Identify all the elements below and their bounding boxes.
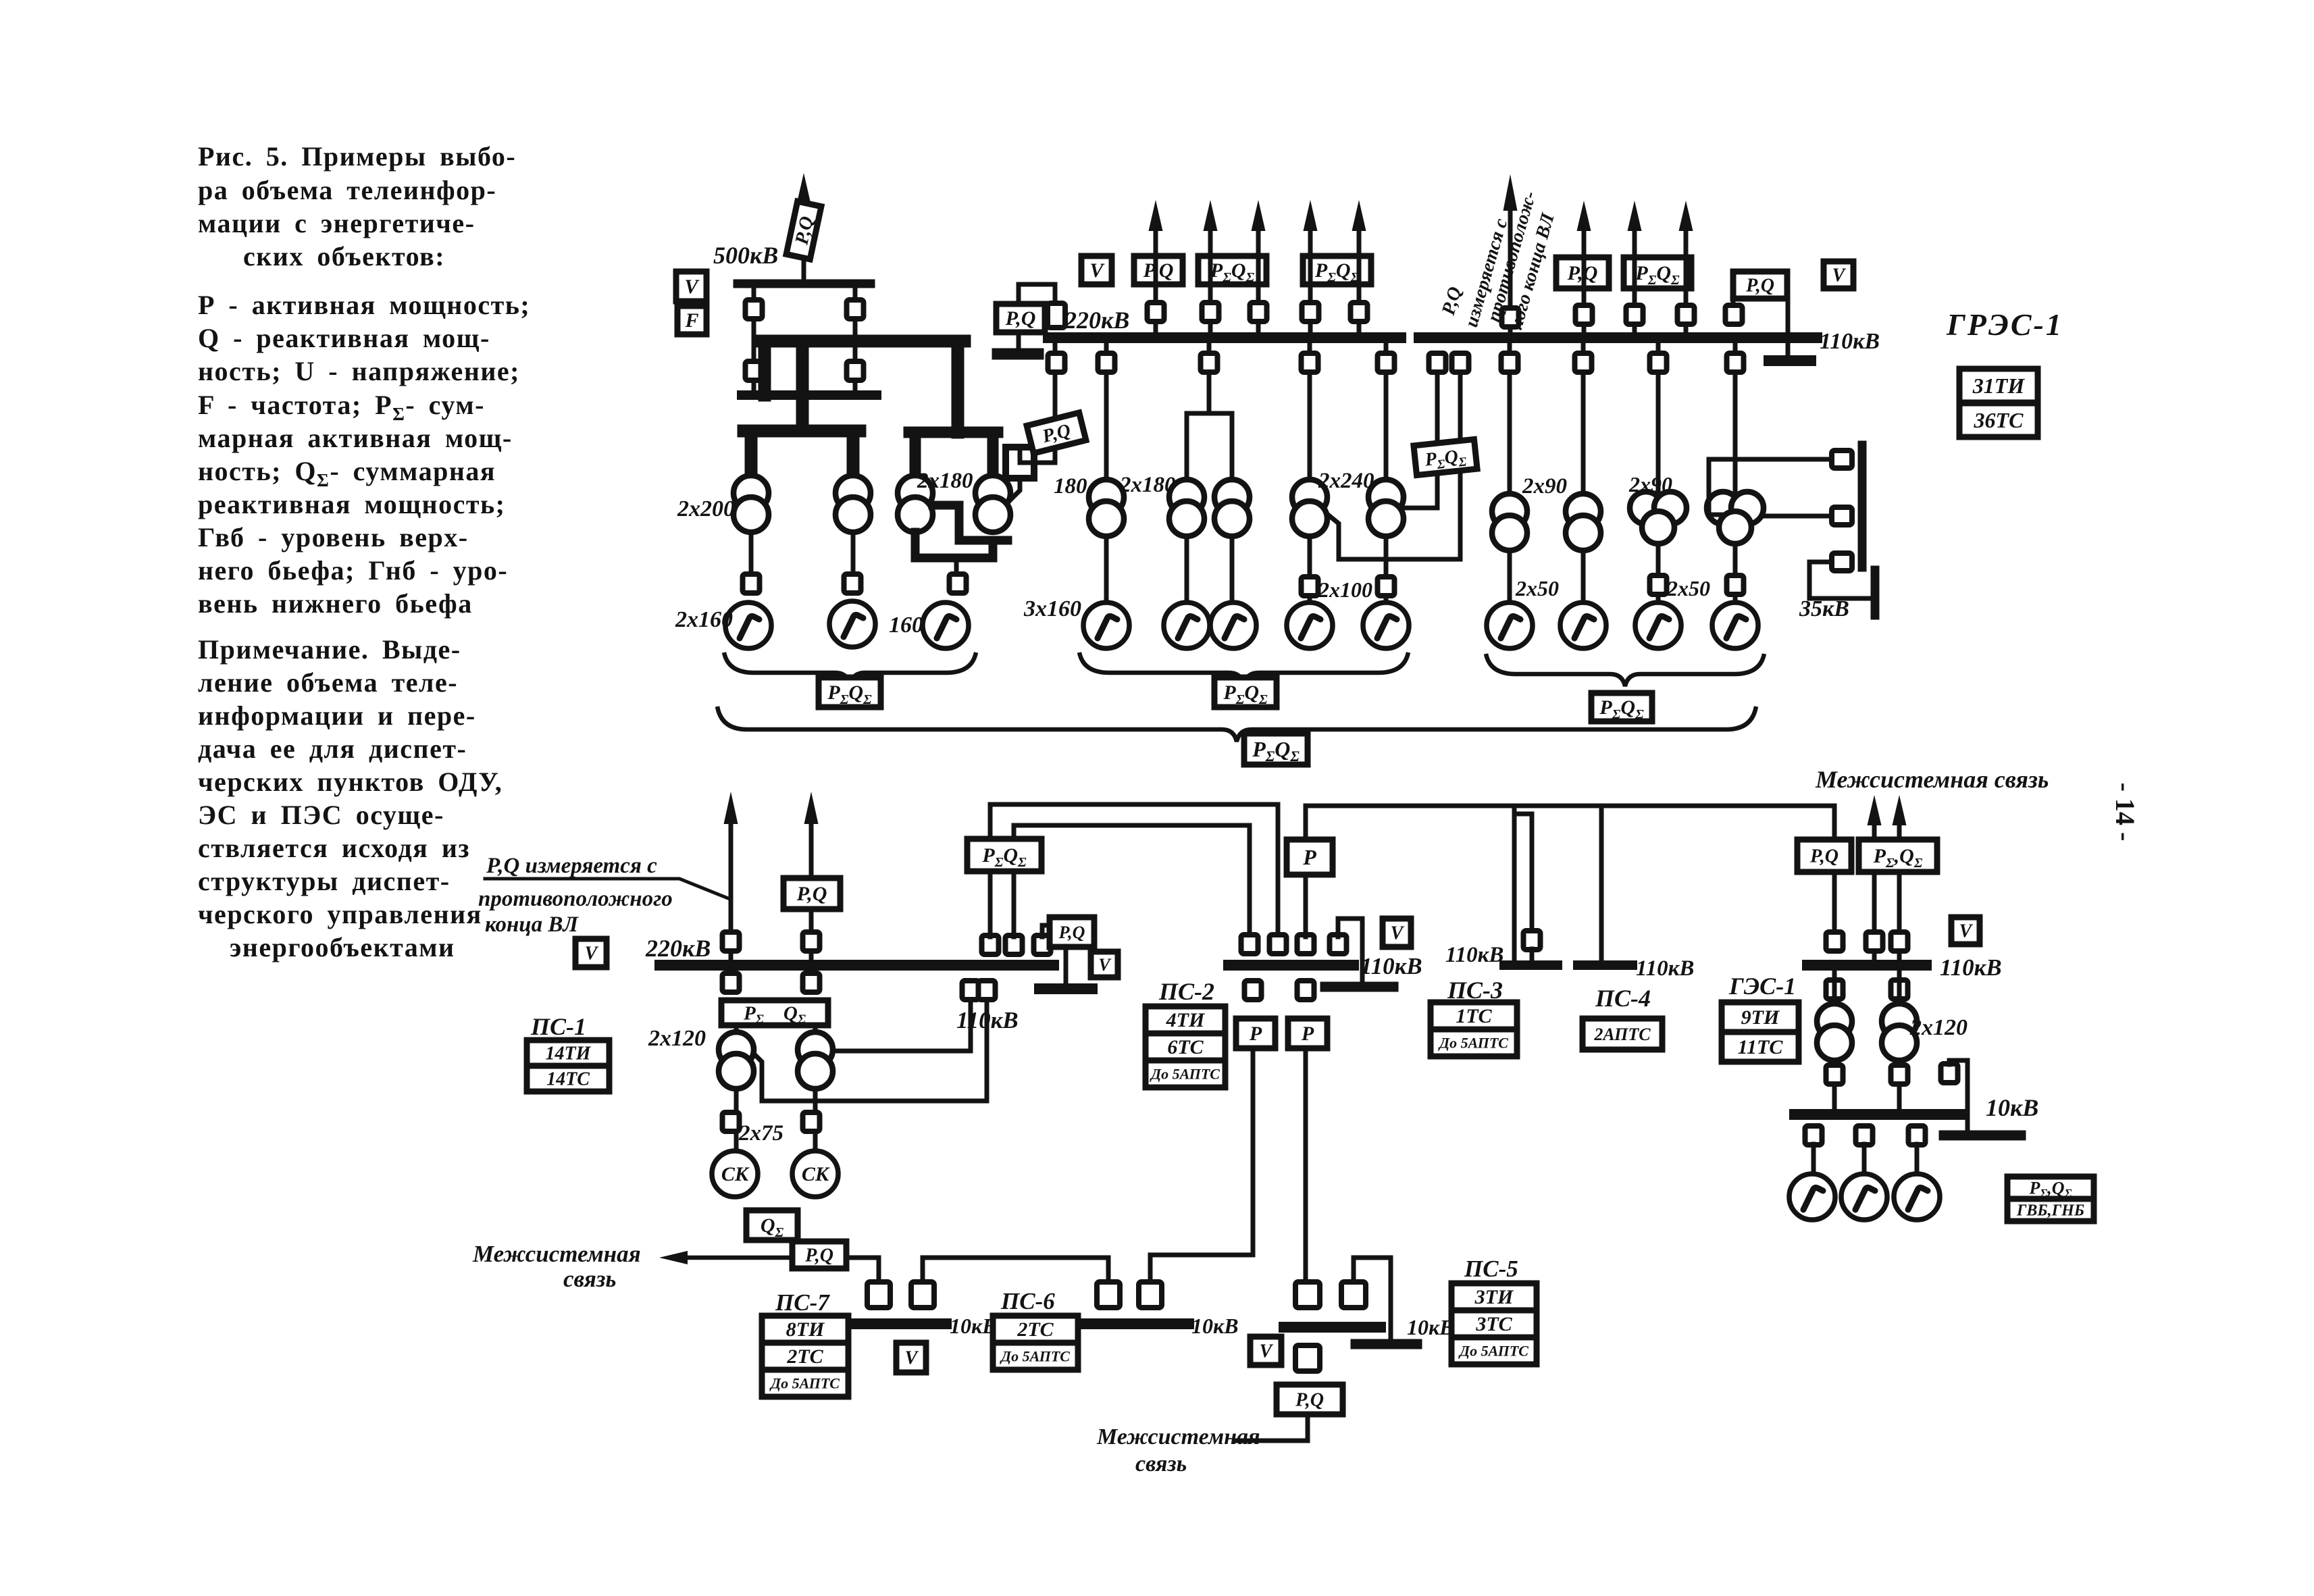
svg-text:2х160: 2х160 [675,607,733,632]
wire GES T1 low [1832,1060,1837,1109]
box 36TS [1959,403,2038,437]
square drop 2x240 b [1378,353,1395,372]
generator B [829,601,875,647]
square secondary link B [1452,353,1469,372]
wire drop 2x90 b [1581,343,1586,494]
feeder with note [1508,211,1513,338]
wire P,Q right leg to ground [1786,299,1791,356]
svg-text:V: V [1391,923,1405,944]
box PS7 2TS [762,1343,848,1370]
svg-text:F - частота; РΣ​- сум-: F - частота; РΣ​- сум- [198,390,485,424]
svg-text:ГРЭС-1: ГРЭС-1 [1946,307,2063,342]
wire 3wa right stub [1709,513,1721,517]
svg-text:F: F [684,309,698,332]
box PS7 APTS [762,1370,848,1397]
svg-text:До 5АПТС: До 5АПТС [769,1374,840,1391]
P,Q slanted box on 500kV line [786,201,821,259]
Qs box PS1 [746,1210,798,1240]
generator GES 1 [1789,1174,1835,1220]
svg-text:2х75: 2х75 [738,1121,783,1145]
square PS1 T1 [723,973,740,992]
svg-text:160: 160 [889,613,923,638]
arrowhead noted feeder [1503,174,1518,211]
F box [677,306,706,334]
wire 2x90b gen [1581,550,1586,602]
wire 500kV outgoing line [802,203,806,284]
square P,Q leg [1726,305,1743,324]
box 31TI [1959,369,2038,403]
thick tie V1 [796,341,809,431]
wire T1 to generator [749,532,754,573]
box PS6 APTS [993,1343,1078,1370]
svg-text:Р,Q: Р,Q [1745,276,1774,297]
P,Q box intersystem [792,1241,846,1268]
svg-text:Рис. 5. Примеры выбо-: Рис. 5. Примеры выбо- [198,141,516,172]
arrowhead GRES #1 [1577,201,1591,231]
P,Q box PS1 feeder [783,878,840,909]
wire breaker bay B [853,288,858,390]
svg-text:Р,Q измеряется с: Р,Q измеряется с [486,854,657,878]
wire drop 2x240 a [1308,343,1312,480]
generator 2x180 b [1210,602,1256,648]
transformer T2 [835,475,871,511]
svg-text:До 5АПТС: До 5АПТС [1438,1034,1508,1051]
square GES gen3 [1909,1126,1926,1145]
square PS2 down1 [1245,981,1262,1000]
link box 2x180 to 220kV [1006,447,1034,478]
feeder line 220kV #3 [1256,230,1261,338]
35kV bar 2 [1871,570,1880,615]
big brace all groups [717,706,1756,742]
svg-text:2ТС: 2ТС [786,1345,823,1368]
arrowhead 220kV #5 [1352,200,1366,231]
svg-text:V: V [684,276,700,298]
wire 3w a gen [1656,544,1661,602]
svg-text:14ТС: 14ТС [546,1069,590,1090]
transformer 2x180 a [1169,480,1204,515]
square noted feeder [1502,308,1519,327]
svg-text:V: V [1089,259,1105,282]
wire GES hook [1949,1060,1968,1131]
brace group 3 [1486,654,1764,686]
thick drop to T3b [987,432,999,477]
square PS1 up b [1006,935,1023,954]
square GRES feeder #1 [1576,305,1593,324]
svg-text:3х160: 3х160 [1023,596,1081,621]
square PS6 in1 [1097,1282,1120,1308]
svg-text:3ТС: 3ТС [1475,1313,1512,1335]
svg-text:V: V [1959,921,1974,942]
svg-text:Р,Q: Р,Q [1809,846,1839,867]
wire gen a [1185,536,1189,602]
svg-text:ских объектов:: ских объектов: [243,241,445,272]
wire gen2 [1862,1144,1867,1174]
synchronous condenser b [792,1151,838,1197]
feeder line GRES #3 [1684,230,1689,338]
transformer 2x90 a [1492,494,1527,529]
wire drop to autotransformer link [1053,343,1058,419]
PsQs box 1 [1198,256,1266,285]
generator 2x90 a [1487,602,1533,648]
wire PS2 to PS6 [1150,1048,1253,1282]
square GES out1 [1866,932,1883,951]
split header 2x180 [1187,413,1232,480]
wire PS1 up a [988,871,993,937]
square 2x90 b [1575,353,1592,372]
svg-text:V: V [1098,955,1112,975]
square gen 2x100 a [1302,577,1318,596]
wire hook PS5 [1354,1258,1391,1339]
generator GES 3 [1894,1174,1940,1220]
svg-text:дача ее для диспет-: дача ее для диспет- [198,733,467,764]
box PS7 8TI [762,1316,848,1343]
square PS2 up2 [1270,935,1287,954]
line out PS1 #2 [809,823,814,965]
caption text column [198,141,530,962]
wire to PS7 [846,1258,879,1282]
busbar PS2 [1229,960,1354,971]
V box [676,272,706,301]
square 3wa gen [1650,575,1667,594]
wire W3 main tie [1306,806,1834,937]
wire PS5 to intersystem [1236,1414,1308,1441]
svg-text:СК: СК [721,1163,750,1185]
svg-text:ствляется исходя из: ствляется исходя из [198,833,470,863]
svg-text:3ТИ: 3ТИ [1474,1286,1514,1308]
wire drop 2x240 b [1384,343,1389,480]
P,Q box PS1 right [1050,917,1094,947]
square 220kV feeder #1 [1148,303,1164,321]
svg-text:СК: СК [802,1163,830,1185]
svg-text:ГЭС-1: ГЭС-1 [1728,973,1796,1000]
wire PS3 sq to bus [1530,949,1535,960]
svg-text:500кВ: 500кВ [713,242,778,269]
svg-text:мации с энергетиче-: мации с энергетиче- [198,208,475,238]
square PS1 link T1 [979,981,996,1000]
PsQs box group2 [1214,677,1277,707]
switch square gen 160 [950,574,967,593]
svg-text:Р - активная мощность;: Р - активная мощность; [198,290,530,320]
wire gen3 [1915,1144,1920,1174]
PsQs box PS1 right [967,839,1042,871]
wire breaker bay A [752,288,756,390]
wire PS7 to PS6 [923,1258,1108,1282]
wire drop 2x90 a [1508,343,1512,494]
square secondary link A [1429,353,1446,372]
wire intersystem left [685,1256,792,1260]
wire 35kV bottom link [1809,562,1871,598]
svg-text:него бьефа; Гнб - уро-: него бьефа; Гнб - уро- [198,555,508,586]
wire PS1 T2 link [833,1000,971,1051]
svg-text:ра объема телеинфор-: ра объема телеинфор- [198,175,496,205]
feeder line GRES #2 [1632,230,1637,338]
wire PS2 to PS5 [1304,1048,1308,1282]
svg-text:Р,Q: Р,Q [1295,1390,1324,1411]
thick link T3a-T3b jog [933,505,1008,540]
svg-text:ГВБ,ГНБ: ГВБ,ГНБ [2016,1202,2084,1220]
svg-text:2х90: 2х90 [1628,472,1672,496]
box PS4 APTS [1583,1019,1662,1050]
generator 3w a [1635,602,1681,648]
GVB GNB box [2007,1199,2094,1221]
wire W3 end to GES [1832,806,1837,933]
wire hook PS2 ground [1338,919,1362,981]
svg-text:энергообъектами: энергообъектами [230,932,455,962]
box PS3 APTS [1431,1029,1517,1056]
wire T3 to generator [954,558,959,573]
svg-text:марная активная мощ-: марная активная мощ- [198,423,513,453]
ground bar PS2 [1325,982,1393,992]
PsQs wide box PS1 [721,1000,828,1027]
svg-text:2х120: 2х120 [648,1026,706,1051]
wire drop 180 [1104,343,1109,480]
V box PS5 [1250,1337,1281,1365]
svg-text:ЭС и ПЭС осуще-: ЭС и ПЭС осуще- [198,800,444,830]
square PS2 up1 [1241,935,1258,954]
transformer 180 [1089,480,1124,515]
wire drop PS3 a [1512,806,1517,960]
svg-text:Q - реактивная мощ-: Q - реактивная мощ- [198,323,490,353]
busbar GES 10kV [1795,1109,1962,1120]
svg-text:ПС-4: ПС-4 [1595,985,1651,1012]
V box PS2 [1383,919,1411,947]
generator 2x90 b [1560,602,1606,648]
ground bar PS1 [1039,983,1092,994]
svg-text:10кВ: 10кВ [950,1314,997,1338]
svg-text:14ТИ: 14ТИ [546,1044,592,1064]
ground bar PS5 [1356,1339,1417,1349]
busbar GES 110kV [1807,960,1926,971]
square PS6 in2 [1139,1282,1162,1308]
box GES 11TS [1722,1032,1799,1062]
svg-text:реактивная мощность;: реактивная мощность; [198,489,505,519]
svg-text:ление объема теле-: ление объема теле- [198,667,458,698]
square 220kV feeder #5 [1351,303,1368,321]
transformer T3b 2x180 [975,475,1010,511]
svg-text:Р,Q: Р,Q [1058,923,1085,942]
square PS5 in1 [1295,1282,1320,1308]
transformer GES b [1882,1004,1917,1039]
transformer 2x240 b [1368,480,1404,515]
busbar 500kV upper [738,280,871,288]
wire hook left end [1019,284,1055,304]
wire drop PS3 b [1514,814,1532,931]
wire box to T2 [813,1025,818,1033]
square 2x90 a [1501,353,1518,372]
brace group 1 [724,652,976,685]
transformer T1 2x200 [734,475,769,511]
svg-text:V: V [1260,1341,1274,1362]
wire hook PS1 right [1042,925,1051,937]
box PS2 6TS [1146,1033,1225,1060]
line out PS1 #1 [729,823,734,965]
svg-text:110кВ: 110кВ [1940,954,2002,981]
square CK b [803,1112,820,1131]
square 3wb gen [1727,575,1744,594]
svg-text:11ТС: 11ТС [1738,1036,1784,1058]
busbar 500kV lower [742,390,877,400]
P box PS2 a [1236,1019,1275,1048]
square PS7 in2 [911,1282,934,1308]
feeder line 220kV #4 [1308,230,1313,338]
svg-text:РΣ​ QΣ​: РΣ​ QΣ​ [743,1002,806,1027]
svg-text:110кВ: 110кВ [1636,956,1694,981]
svg-text:ПС-2: ПС-2 [1158,978,1214,1005]
svg-text:4ТИ: 4ТИ [1166,1009,1206,1031]
PsQs box GES total [2007,1177,2094,1200]
ground bar left [998,349,1038,360]
3-winding transformer a [1630,492,1662,524]
svg-text:2х200: 2х200 [677,496,735,521]
wire 3w b gen [1733,544,1738,602]
wire 35kV top link [1709,459,1833,515]
brace group 2 [1079,652,1408,685]
wire link rect to T3b [1010,478,1020,500]
wire drop PS4 [1599,806,1604,960]
box PS5 3TI [1451,1283,1537,1310]
svg-text:Р: Р [1301,1023,1314,1045]
square GES low1 [1826,1065,1843,1084]
transformer PS1 b [798,1032,833,1067]
svg-text:V: V [585,944,599,964]
P,Q box with ground [1733,272,1787,299]
wire drop 2x180 [1207,343,1212,413]
square bus left end [1048,303,1065,328]
PsQs slant box links [1414,439,1477,475]
square PS1 right end [1034,935,1051,954]
svg-text:2х120: 2х120 [1909,1015,1968,1040]
wire drop 3w b [1733,343,1738,500]
svg-text:Межсистемная связь: Межсистемная связь [1815,766,2049,793]
box PS1 14TI [527,1040,609,1066]
square 220kV feeder #3 [1250,303,1267,321]
wire to ground PS1 [1064,947,1069,983]
svg-text:До 5АПТС: До 5АПТС [1000,1347,1070,1364]
box PS6 2TS [993,1316,1078,1343]
3-winding transformer b [1707,492,1739,524]
svg-text:2х240: 2х240 [1318,469,1374,493]
square PS1 T2 [803,973,820,992]
svg-text:Гвб - уровень верх-: Гвб - уровень верх- [198,522,469,552]
feeder line 220kV #1 [1154,230,1158,338]
square GES T2 [1891,980,1908,999]
svg-text:Р: Р [1302,845,1316,869]
svg-text:110кВ: 110кВ [956,1007,1019,1033]
wire drop 3w a [1656,343,1661,500]
feeder line 220kV #2 [1208,230,1213,338]
arrowhead 220kV #2 [1204,200,1218,231]
arrowhead 500kV line [797,173,811,204]
svg-text:220кВ: 220кВ [645,935,711,962]
square drop 2x180 [1201,353,1218,372]
arrowhead 220kV #3 [1252,200,1266,231]
svg-text:110кВ: 110кВ [1445,943,1503,967]
V box PS1 [575,939,607,967]
switch square gen A [743,574,760,593]
square drop 2x240 a [1302,353,1318,372]
box PS1 14TS [527,1066,609,1091]
transformer 2x180 b [1214,480,1250,515]
svg-text:Р,Q: Р,Q [1005,307,1036,330]
svg-text:10кВ: 10кВ [1407,1315,1454,1339]
line out GES #1 [1872,824,1877,965]
note underline [485,879,728,898]
generator A [725,602,771,648]
thick drop to T1 [745,431,758,477]
svg-text:связь: связь [1135,1451,1187,1476]
35kV bus bar vertical [1858,445,1867,567]
PsQs box GES [1859,840,1937,872]
svg-text:Р,Q: Р,Q [796,883,827,905]
wire GES T1 [1832,971,1837,1006]
wire GES T2 low [1897,1060,1902,1109]
box GES 9TI [1722,1002,1799,1032]
generator 2x240 a [1287,602,1333,648]
arrowhead GES #2 [1893,795,1907,825]
svg-text:2х90: 2х90 [1522,474,1567,498]
svg-text:V: V [1832,265,1847,286]
busbar PS7 [855,1318,946,1329]
svg-text:связь: связь [563,1266,616,1292]
square GES gen2 [1856,1126,1873,1145]
square autotransformer link [1048,353,1065,372]
P,Q box PS5 [1277,1385,1343,1414]
svg-text:До 5АПТС: До 5АПТС [1458,1342,1528,1359]
generator 160 [923,602,969,648]
svg-text:10кВ: 10кВ [1986,1094,2038,1121]
square GES gen1 [1805,1126,1822,1145]
svg-text:Межсистемная: Межсистемная [472,1241,641,1267]
square 3w a [1650,353,1667,372]
box PS2 APTS [1146,1060,1225,1087]
svg-text:До 5АПТС: До 5АПТС [1150,1065,1220,1082]
P box PS2 b [1288,1019,1327,1048]
left P,Q box 220kV [996,304,1045,332]
svg-text:8ТИ: 8ТИ [786,1318,825,1341]
arrowhead GRES #2 [1628,201,1642,231]
busbar 220kV [1048,332,1401,343]
square GES hook [1941,1064,1958,1083]
square GES out2 [1891,932,1908,951]
wire 2x90a gen [1508,550,1512,602]
svg-text:9ТИ: 9ТИ [1741,1006,1780,1029]
V box 220kV [1081,256,1112,284]
square PS2 up4 [1330,935,1347,954]
wire secondary link A [1405,372,1437,508]
busbar PS5 [1284,1322,1381,1333]
svg-text:10кВ: 10кВ [1191,1314,1239,1338]
generator 2x180 a [1164,602,1210,648]
synchronous condenser a [712,1151,758,1197]
svg-text:Р: Р [1249,1023,1262,1045]
transformer PS1 a 2x120 [719,1032,754,1067]
wire box to T1 [734,1025,739,1033]
breaker square B2 [847,361,864,380]
transformer 2x90 b [1566,494,1601,529]
P,Q box 220kV feeders [1134,256,1183,284]
PsQs box GRES [1624,257,1691,288]
svg-text:конца ВЛ: конца ВЛ [485,912,579,937]
square GRES feeder #3 [1678,305,1695,324]
busbar PS1 220kV right [934,960,1054,971]
arrowhead GRES #3 [1679,201,1693,231]
square PS1 up a [982,935,999,954]
square GES low2 [1891,1065,1908,1084]
wire 180 to gen [1104,536,1109,602]
V box PS1 right [1091,952,1118,977]
arrowhead PS1 #1 [724,792,738,824]
wire T1 to CK [734,1089,739,1152]
